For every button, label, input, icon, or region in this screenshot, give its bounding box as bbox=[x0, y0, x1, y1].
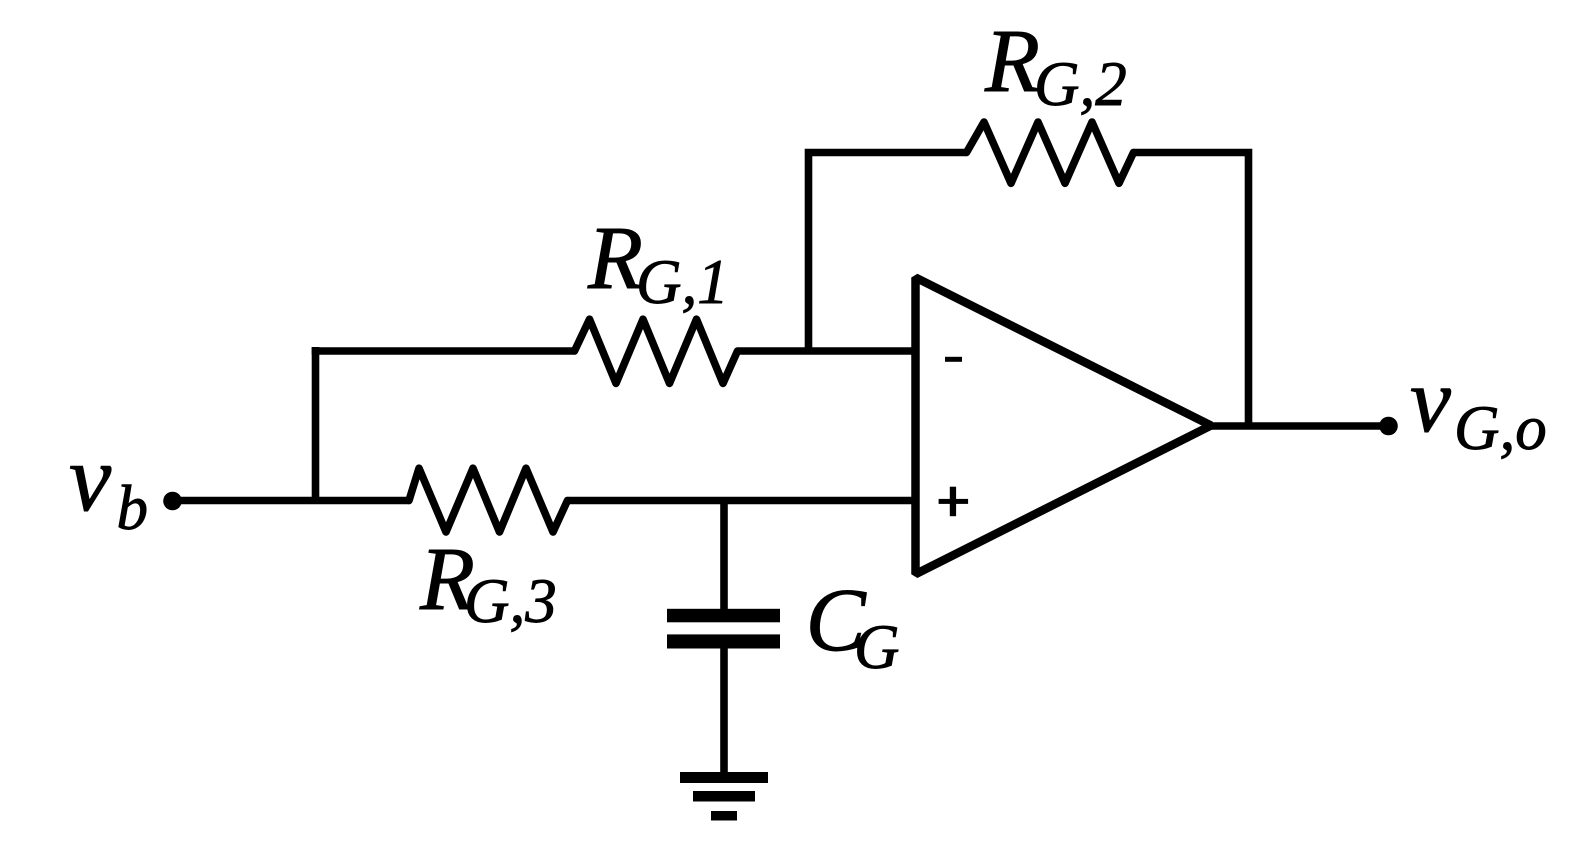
svg-text:G,o: G,o bbox=[1454, 393, 1547, 463]
svg-text:R: R bbox=[587, 209, 643, 308]
svg-text:R: R bbox=[984, 12, 1040, 111]
svg-text:v: v bbox=[1410, 349, 1451, 451]
svg-text:v: v bbox=[69, 425, 112, 531]
svg-text:G: G bbox=[854, 612, 900, 682]
svg-text:G,2: G,2 bbox=[1034, 49, 1127, 119]
svg-text:G,3: G,3 bbox=[464, 566, 557, 636]
svg-text:G,1: G,1 bbox=[636, 247, 729, 317]
svg-text:b: b bbox=[117, 473, 149, 543]
